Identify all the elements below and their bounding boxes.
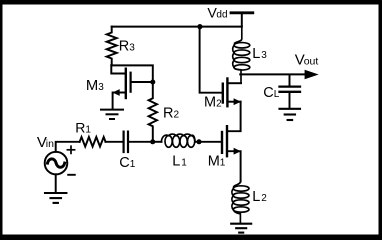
wire: CL bottom lead xyxy=(289,93,291,108)
label L3 xyxy=(252,46,267,62)
Vdd supply bar xyxy=(231,11,253,14)
wire: Vdd rail xyxy=(112,26,242,28)
svg-text:1: 1 xyxy=(220,157,226,168)
wire: CL top lead xyxy=(289,75,291,86)
wire: M2 drain lead xyxy=(229,82,241,84)
wire: M3 drain lead xyxy=(111,65,124,73)
svg-text:L: L xyxy=(274,89,280,100)
svg-text:1: 1 xyxy=(130,159,136,170)
wire: node C to L1 xyxy=(153,141,162,143)
transistor M1 channel xyxy=(226,126,228,156)
label Vout xyxy=(295,52,319,69)
svg-text:M: M xyxy=(86,78,98,94)
svg-text:R: R xyxy=(119,38,129,54)
resistor R2 xyxy=(149,82,157,142)
voltage source Vin circle xyxy=(45,152,68,175)
label L2 xyxy=(252,189,267,205)
label M3 xyxy=(86,78,104,94)
arrow: M2 source xyxy=(234,98,241,105)
node B (M3 gate/drain, R2 top) xyxy=(150,80,155,85)
node C (C1/R2/L1 junction) xyxy=(150,139,155,144)
svg-text:3: 3 xyxy=(129,42,135,53)
label L1 xyxy=(172,154,187,170)
resistor R1 xyxy=(80,137,106,147)
wire: R1 to C1 xyxy=(106,141,124,143)
transistor M2 gate bar xyxy=(222,84,224,103)
label C1 xyxy=(119,155,136,171)
transistor M1 gate bar xyxy=(221,132,223,153)
arrow: M3 source xyxy=(112,89,119,96)
svg-text:R: R xyxy=(163,106,173,122)
svg-text:in: in xyxy=(46,138,54,150)
svg-text:R: R xyxy=(75,119,85,135)
svg-text:out: out xyxy=(304,56,319,68)
svg-text:2: 2 xyxy=(261,193,267,204)
wire: M1 source lead xyxy=(228,151,240,181)
ground under CL xyxy=(280,109,301,120)
capacitor CL xyxy=(280,87,301,92)
label M1 xyxy=(208,153,226,169)
wire: M3 gate lead xyxy=(132,81,151,83)
resistor R3 xyxy=(107,27,117,66)
wire: M2 source lead xyxy=(229,101,241,103)
svg-text:3: 3 xyxy=(261,50,267,61)
wire: Vin top lead xyxy=(56,142,80,152)
label R1 xyxy=(75,119,91,135)
wire: node A to M3 gate column xyxy=(111,65,153,79)
label M2 xyxy=(204,95,222,111)
wire: C1 to node C xyxy=(129,141,153,143)
ground under Vin xyxy=(45,193,66,203)
wire: M3 source lead xyxy=(113,93,125,109)
label CL xyxy=(263,85,280,101)
svg-text:C: C xyxy=(119,155,129,171)
svg-text:2: 2 xyxy=(174,110,180,121)
transistor M2 channel xyxy=(226,79,228,107)
sine wave inside Vin xyxy=(48,159,65,167)
transistor M3 gate bar xyxy=(130,73,132,92)
svg-text:1: 1 xyxy=(181,158,187,169)
arrow: Vout xyxy=(305,70,319,79)
ground under M3 xyxy=(101,110,123,119)
label Vin xyxy=(37,134,54,151)
node D (L1 / M1 gate) xyxy=(197,139,202,144)
svg-text:1: 1 xyxy=(85,124,91,135)
wire: L1 to M1 gate xyxy=(195,141,221,143)
inductor L3 xyxy=(233,27,250,84)
svg-text:C: C xyxy=(263,85,273,101)
label R2 xyxy=(163,106,180,122)
wire: M2 gate riser xyxy=(200,27,222,93)
plus sign of Vin xyxy=(67,146,74,153)
label R3 xyxy=(119,38,136,54)
minus sign of Vin xyxy=(68,174,75,176)
capacitor C1 xyxy=(124,132,128,152)
node: M2 gate tap on Vdd rail xyxy=(197,24,202,29)
ground under L2 xyxy=(231,224,251,233)
svg-text:L: L xyxy=(172,154,180,170)
svg-text:M: M xyxy=(204,95,216,111)
svg-text:dd: dd xyxy=(216,10,227,21)
arrow: M1 source xyxy=(234,148,241,155)
wire: M1 drain lead xyxy=(228,102,240,132)
label Vdd xyxy=(207,6,227,22)
transistor M3 channel xyxy=(125,69,127,98)
svg-text:L: L xyxy=(252,189,260,205)
svg-text:3: 3 xyxy=(98,82,104,93)
svg-text:2: 2 xyxy=(216,99,222,110)
svg-text:M: M xyxy=(208,153,220,169)
svg-text:L: L xyxy=(252,46,260,62)
wire: Vdd bar to rail xyxy=(241,13,243,27)
wire: Vin bottom lead xyxy=(55,174,57,192)
inductor L1 xyxy=(161,134,195,147)
wire: output node xyxy=(240,73,305,75)
inductor L2 xyxy=(232,181,249,223)
